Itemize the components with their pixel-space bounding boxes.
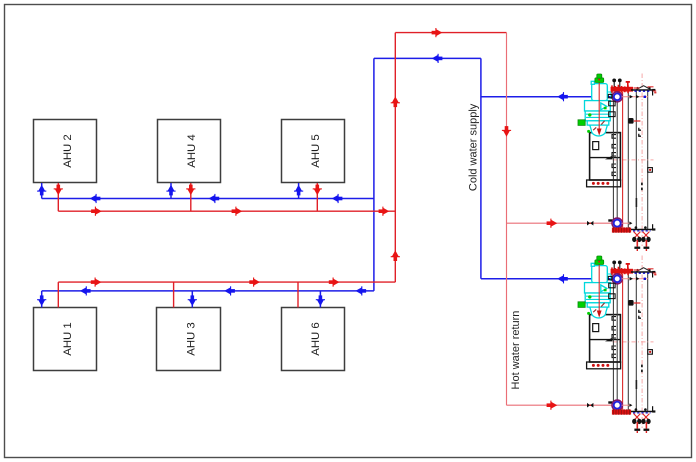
sight glass box — [648, 168, 653, 173]
svg-text:AHU 3: AHU 3 — [186, 322, 198, 356]
pump discharge line across shells — [622, 95, 649, 99]
flow arrow blue up AHU 4 — [166, 185, 175, 196]
chiller unit 1 — [578, 74, 656, 252]
flow arrow blue left chiller 2 feed — [557, 274, 568, 283]
wire: AHU 5 supply stub — [298, 183, 300, 199]
pump 1 circle — [612, 92, 622, 102]
flow arrow blue left — [224, 286, 235, 295]
wire: cold supply riser — [373, 58, 375, 291]
wire: hot return from chiller 2 — [507, 404, 612, 406]
AHU 5 box — [282, 120, 345, 183]
AHU 2 box — [34, 120, 97, 183]
flow arrow blue down AHU 1 — [37, 295, 46, 306]
flow arrow red right — [249, 278, 260, 287]
AHU 6 box — [282, 308, 345, 371]
flow arrow red right — [379, 207, 390, 216]
svg-text:Cold water supply: Cold water supply — [468, 103, 480, 191]
evaporator bottom header — [631, 224, 655, 231]
wire: hot return main bottom row — [58, 281, 395, 283]
control panel — [590, 133, 621, 180]
pump drop pipes — [613, 101, 617, 219]
flow arrow blue left — [432, 54, 443, 63]
wire: cold supply top header — [374, 57, 481, 59]
green motor cap — [595, 74, 604, 83]
small fittings dark red — [593, 121, 604, 130]
wire: AHU 3 return stub — [173, 282, 175, 307]
wire: AHU 4 return stub — [190, 183, 192, 211]
svg-text:Hot water return: Hot water return — [510, 311, 522, 390]
svg-text:AHU 2: AHU 2 — [62, 134, 74, 168]
heat exchanger shell lines — [628, 90, 647, 230]
flanged valve cluster red — [611, 81, 633, 94]
wire: AHU 2 return stub — [57, 183, 59, 211]
flow arrow blue up AHU 2 — [37, 185, 46, 196]
inlet flange — [608, 94, 612, 97]
wire: cold supply main top row — [42, 198, 374, 200]
support cross braces — [634, 232, 650, 239]
flow arrow red right — [91, 207, 102, 216]
AHU 3 box — [157, 308, 221, 371]
heat exchanger centerline vertical — [641, 74, 643, 247]
wire: cold supply main bottom row — [42, 290, 374, 292]
flow arrow red right chiller 2 return — [547, 401, 558, 410]
flow arrow blue left — [209, 194, 220, 203]
flow arrow blue down AHU 3 — [188, 295, 197, 306]
flow arrow red right — [232, 207, 243, 216]
pump 2 circle — [612, 218, 622, 228]
wire: AHU 6 supply stub — [319, 291, 321, 308]
flow arrow red right — [329, 278, 340, 287]
isolation valve stems above pump — [612, 79, 621, 88]
AHU 4 box — [158, 120, 221, 183]
panel terminal clips — [612, 135, 616, 176]
green sensor box — [578, 120, 585, 126]
support feet — [632, 237, 651, 242]
flow arrow blue left — [355, 286, 366, 295]
flow arrow blue down AHU 6 — [316, 295, 325, 306]
flow arrow red up riser — [391, 96, 400, 107]
flow arrow red right chiller 1 return — [547, 219, 558, 228]
inline pump motor cyan body — [585, 81, 614, 136]
wire: AHU 6 return stub — [297, 282, 299, 307]
black fitting left of pump 2 — [608, 219, 613, 221]
flow arrow red down east drop — [502, 126, 511, 137]
wire: hot return east drop — [506, 33, 508, 406]
wire: AHU 1 supply stub — [41, 291, 43, 308]
strainer on shell line — [628, 118, 640, 124]
wire: hot return main top row — [58, 210, 395, 212]
flow arrow blue left — [90, 194, 101, 203]
wire: hot return top header — [395, 32, 506, 34]
pipe clamps below pump — [609, 101, 615, 116]
isolation valve bowtie on return line — [587, 221, 593, 226]
flow arrow blue left chiller 1 feed — [557, 92, 568, 101]
evaporator top header — [631, 86, 656, 96]
wire: hot return from chiller 1 — [507, 222, 612, 224]
support legs — [634, 240, 649, 251]
weld seam — [636, 198, 638, 207]
pump 2 discharge stub — [622, 222, 633, 225]
shell side ticks — [641, 183, 643, 191]
flow arrow blue left — [332, 194, 343, 203]
wire: AHU 3 supply stub — [191, 291, 193, 308]
flow arrow red down AHU 4 — [186, 185, 195, 196]
wire: cold supply feed to chiller 1 — [481, 96, 613, 98]
wire: AHU 4 supply stub — [170, 183, 172, 199]
pump shaft centerline with down arrow — [597, 80, 602, 136]
flow arrow blue up AHU 5 — [294, 185, 303, 196]
wire: cold supply feed to chiller 2 — [481, 278, 613, 280]
svg-text:AHU 5: AHU 5 — [310, 134, 322, 168]
wire: AHU 1 return stub — [57, 282, 59, 307]
svg-text:AHU 6: AHU 6 — [310, 322, 322, 356]
heat exchanger centerline horizontal — [613, 159, 654, 161]
panel base strip with indicator dots — [587, 180, 621, 187]
svg-text:AHU 4: AHU 4 — [186, 134, 198, 168]
AHU 1 box — [34, 308, 97, 371]
condenser water pipe red vertical — [622, 92, 624, 228]
wire: hot return riser — [394, 33, 396, 283]
svg-text:AHU 1: AHU 1 — [62, 322, 74, 356]
flow arrow red right — [91, 278, 102, 287]
flexible connector red hatch — [612, 227, 631, 233]
green fittings — [587, 107, 607, 133]
flow arrow red up riser — [391, 250, 400, 261]
flow arrow blue left — [80, 286, 91, 295]
wire: AHU 2 supply stub — [41, 183, 43, 199]
flow arrow red down AHU 5 — [313, 185, 322, 196]
wire: cold supply east drop — [480, 58, 482, 278]
flow arrow red down AHU 2 — [54, 185, 63, 196]
wire: AHU 5 return stub — [316, 183, 318, 211]
instrument taps — [639, 128, 641, 136]
chiller unit 2 — [578, 256, 656, 434]
flow arrow red right top header — [432, 28, 443, 37]
